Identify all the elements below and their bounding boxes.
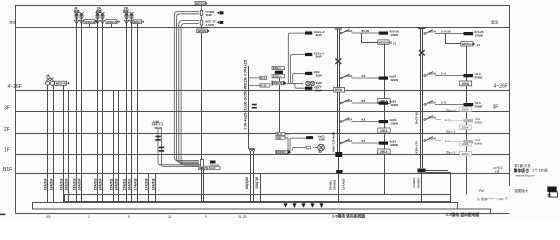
svg-text:17A(6)8: 17A(6)8 [144, 178, 148, 190]
4F cable tag box T0 [55, 81, 69, 85]
floor line 2F [16, 133, 510, 135]
wire elbow bundle w1 [174, 11, 199, 160]
busbar U2 top cap [418, 28, 425, 30]
support triangle 1 [283, 203, 287, 207]
fuse block blob [210, 161, 216, 164]
end blob b [217, 21, 220, 24]
svg-text:15A(6)4: 15A(6)4 [43, 178, 47, 190]
svg-text:15A(6)3: 15A(6)3 [59, 178, 63, 190]
svg-text:20kW: 20kW [390, 143, 398, 147]
svg-text:15A(6)2: 15A(6)2 [109, 178, 113, 190]
floor line 3F [16, 111, 510, 113]
arrester A1a [74, 12, 78, 24]
feeder F2 elbow [446, 34, 467, 195]
svg-text:5: 5 [128, 215, 130, 218]
svg-text:9: 9 [205, 215, 207, 218]
svg-text:2~4: 2~4 [441, 72, 446, 76]
riser pair P1 from 4F cluster [48, 85, 54, 202]
wire trunk row1 [288, 33, 305, 83]
busbar U1 end cap B1F [336, 170, 342, 173]
svg-text:~100A: ~100A [427, 29, 437, 33]
feeder F2 200A box faded b [460, 125, 472, 130]
svg-text:16A(6)1: 16A(6)1 [127, 178, 131, 190]
black box XLEx+1 [305, 53, 312, 56]
svg-text:www.zhulong.com: www.zhulong.com [515, 175, 534, 178]
cluster E3D box lower [272, 75, 285, 78]
svg-text:具φ∞ 5-: 具φ∞ 5- [446, 108, 456, 113]
tag box stems [90, 24, 138, 28]
feeder F2 200A box faded c [460, 142, 472, 147]
svg-text:D-15: D-15 [261, 84, 268, 88]
svg-text:K2: K2 [362, 118, 366, 122]
frame bottom line [16, 213, 510, 215]
svg-text:从 改进(一) 一 ( 1/2): 从 改进(一) 一 ( 1/2) [477, 196, 504, 201]
svg-text:30kW: 30kW [475, 75, 483, 79]
svg-text:200A: 200A [462, 152, 469, 156]
svg-text:13kW: 13kW [390, 121, 398, 125]
svg-text:200A: 200A [462, 126, 469, 130]
svg-text:4~26F: 4~26F [494, 83, 508, 89]
wire from tag T4 down [200, 5, 202, 29]
fuse risers down [202, 167, 204, 202]
svg-text:42kW: 42kW [390, 103, 398, 107]
feeder F2 200A box dark [460, 81, 472, 86]
riser pair P5a [114, 91, 119, 203]
svg-text:16A(6)4: 16A(6)4 [64, 178, 68, 190]
svg-text:30kW: 30kW [475, 104, 483, 108]
svg-text:3kW: 3kW [316, 89, 322, 93]
isolator ticks t2 [159, 147, 164, 149]
cluster E3D box upper [272, 66, 285, 69]
cluster E3D black box [275, 71, 283, 74]
support triangle 4 [310, 203, 314, 207]
svg-text:21 25: 21 25 [238, 215, 247, 218]
svg-text:WDZN: WDZN [273, 81, 282, 85]
svg-text:16A(6)4: 16A(6)4 [77, 178, 81, 190]
support triangle 5 [319, 203, 323, 207]
wire trunk row3 [293, 74, 305, 84]
svg-text:具φ∞ 5-: 具φ∞ 5- [446, 150, 456, 155]
wire B join [285, 134, 290, 151]
logo black block [547, 187, 556, 192]
feeder F2 tag box WDZN [461, 42, 480, 48]
svg-text:λλ: λλ [319, 150, 323, 154]
cable tag box T2 [106, 20, 120, 24]
svg-text:1: 1 [88, 215, 90, 218]
feed arrow box A [272, 81, 286, 86]
svg-text:200A: 200A [380, 129, 388, 133]
feeder F1 vertical [362, 33, 385, 195]
svg-text:7AAK3: 7AAK3 [412, 178, 416, 188]
cable tag box T3 [133, 20, 144, 24]
svg-text:40kW: 40kW [390, 33, 398, 37]
svg-text:11: 11 [168, 215, 172, 218]
svg-text:B1F: B1F [3, 167, 12, 173]
svg-text:繁体版也: 繁体版也 [513, 168, 529, 173]
cable tag box T5 [197, 29, 210, 33]
box D-1 [248, 76, 266, 80]
wire elbow bundle w4 [181, 24, 199, 166]
motor circles row4 [306, 81, 310, 85]
svg-text:5kW: 5kW [206, 13, 212, 17]
support triangle 3 [301, 203, 305, 207]
black box XLE [305, 72, 312, 75]
feeder F1 200A box b [378, 128, 390, 133]
svg-text:KBA-YJV-4x50: KBA-YJV-4x50 [332, 132, 336, 152]
terminal caps mid pair [249, 148, 255, 150]
svg-text:茶T被L打多: 茶T被L打多 [514, 163, 530, 168]
bus duct B outline [33, 203, 458, 210]
svg-text:~100A: ~100A [427, 100, 437, 104]
svg-text:4~26F: 4~26F [8, 84, 22, 90]
wire tag T5 down to fuse block [201, 33, 203, 160]
svg-text:1F: 1F [4, 148, 10, 154]
wire trunk row2 [291, 55, 306, 83]
svg-text:65-26: 65-26 [362, 29, 370, 33]
svg-text:20kW: 20kW [475, 33, 483, 37]
arrester A3a [124, 12, 128, 24]
svg-text:3kW: 3kW [316, 33, 322, 37]
svg-text:2~2: 2~2 [445, 118, 450, 122]
svg-text:2个 180原: 2个 180原 [533, 167, 549, 172]
svg-text:KBA-YJV: KBA-YJV [415, 141, 419, 154]
svg-text:2-5强电-竖向配电图: 2-5强电-竖向配电图 [446, 212, 480, 217]
riser pair P2 from arrester group 1 [77, 24, 82, 202]
branch U1 row1 [340, 29, 399, 37]
wire U2 down [421, 173, 423, 203]
wire row4 [287, 83, 303, 85]
cable tag box T4 top [195, 1, 208, 5]
bus duct A outline [65, 195, 451, 202]
svg-text:K3: K3 [362, 99, 366, 103]
floor line B1F [16, 173, 510, 175]
svg-text:15A(6)1: 15A(6)1 [122, 178, 126, 190]
black box 4xE1 [306, 136, 313, 139]
support triangle 2 [292, 203, 296, 207]
wire U2 right to duct [426, 171, 451, 195]
fuse block tag text [199, 166, 221, 170]
riser pair P4 from arrester group 3 [127, 24, 132, 202]
svg-text:15A(6)3: 15A(6)3 [72, 178, 76, 190]
svg-text:下载: 下载 [494, 170, 500, 174]
cluster B trunk wires [285, 134, 306, 151]
svg-text:~100A: ~100A [344, 117, 354, 121]
node wire x248 [248, 66, 250, 149]
svg-text:42kW: 42kW [390, 78, 398, 82]
busbar U1 terminal blob [335, 152, 342, 157]
branch U2 row5 half faded [424, 136, 482, 145]
svg-text:→11: →11 [390, 41, 397, 45]
left cluster B boxes [276, 132, 285, 140]
svg-text:~140A: ~140A [344, 139, 354, 143]
cable tag box T1 [84, 20, 98, 24]
black box XL1 [305, 87, 312, 90]
svg-text:8AAB3: 8AAB3 [417, 178, 421, 188]
breaker CB-b [200, 20, 203, 25]
branch U1 row4 K2 [340, 117, 398, 125]
svg-text:2~5-26: 2~5-26 [441, 30, 451, 34]
busbar U1 vertical pair [338, 29, 340, 155]
busbar U1 200A box at 4F [334, 88, 345, 93]
svg-text:200A: 200A [335, 88, 343, 92]
generator wire ga [158, 129, 200, 165]
branch U1 row3 K3 [340, 99, 398, 107]
svg-text:30kW: 30kW [475, 120, 483, 124]
svg-text:2~1: 2~1 [445, 139, 450, 143]
riser line mid extra [260, 174, 262, 203]
svg-text:17A(4)8: 17A(4)8 [133, 178, 137, 190]
svg-text:K1: K1 [362, 139, 366, 143]
svg-text:WDZ▪N: WDZ▪N [56, 82, 66, 86]
svg-text:~105A: ~105A [427, 115, 437, 119]
svg-text:200A: 200A [462, 108, 469, 112]
branch U2 row3 [424, 100, 483, 108]
svg-text:1W▪: 1W▪ [277, 136, 282, 140]
busbar U1 lower wire [338, 157, 340, 170]
wire B row2 [292, 148, 306, 152]
arrester A3b [129, 12, 133, 24]
wire B row1 [290, 138, 306, 151]
svg-text:E3D▪1: E3D▪1 [273, 66, 281, 70]
svg-text:K4: K4 [362, 74, 366, 78]
4F cluster circle a [46, 81, 50, 85]
svg-text:3F: 3F [493, 105, 499, 111]
riser pair P3 from arrester group 2 [98, 24, 103, 202]
svg-text:3F: 3F [4, 106, 10, 112]
svg-text:Pal: Pal [479, 189, 484, 193]
floor line 4~26F [16, 90, 510, 92]
svg-text:D-1: D-1 [261, 76, 266, 80]
svg-text:2F: 2F [4, 127, 10, 133]
svg-text:2~3: 2~3 [441, 101, 446, 105]
wire elbow bundle w2 [177, 14, 199, 162]
svg-text:1kW: 1kW [319, 137, 325, 141]
svg-text:→11: →11 [474, 43, 481, 47]
svg-text:15A(6)3: 15A(6)3 [93, 178, 97, 190]
feeder F1 200A box c [378, 149, 390, 154]
svg-text:2.5kW: 2.5kW [206, 23, 215, 27]
svg-text:200A: 200A [462, 82, 470, 86]
busbar U1 top cap [335, 28, 342, 30]
small box W5 [306, 146, 310, 149]
isolator ticks t1 [155, 136, 160, 138]
svg-text:3kW: 3kW [316, 55, 322, 59]
breaker CB-a [200, 10, 203, 15]
branch U2 row2 [424, 71, 483, 79]
4F cluster arrester ticks [47, 78, 54, 81]
wire elbow bundle w3 [179, 21, 199, 164]
floor line 1F [16, 154, 510, 156]
svg-text:~140A: ~140A [344, 29, 354, 33]
svg-text:16A(6)4: 16A(6)4 [49, 178, 53, 190]
svg-text:~100A: ~100A [427, 71, 437, 75]
fuse block 1F [200, 160, 203, 168]
svg-text:15A(7)8: 15A(7)8 [255, 177, 259, 189]
feed arrow box B [276, 150, 290, 154]
motor circle X big [318, 144, 325, 151]
branch U1 row5 K1 [340, 139, 398, 147]
logo outlined box [550, 192, 558, 197]
box D-2 [248, 84, 269, 88]
feeder F2 200A box faded a [460, 107, 472, 112]
svg-text:WDZ▪: WDZ▪ [134, 20, 141, 24]
arrester A1b [79, 12, 83, 24]
riser pair P5 [137, 28, 139, 203]
wire from cluster down [279, 78, 281, 134]
svg-text:ク: ク [505, 196, 508, 201]
svg-text:屋顶: 屋顶 [10, 19, 16, 24]
svg-text:~105A: ~105A [427, 136, 437, 140]
feeder F1 tag box WDZN-26 [378, 40, 397, 46]
arrester A2b [100, 12, 104, 24]
svg-text:16A(6)4: 16A(6)4 [98, 178, 102, 190]
busbar U2 end cap B1F [418, 169, 426, 173]
svg-text:30kW: 30kW [475, 141, 483, 145]
svg-text:WDZN: WDZN [277, 150, 285, 154]
riser stub S1 from box T0 [64, 85, 69, 202]
svg-text:具φ∞ 5-: 具φ∞ 5- [446, 129, 456, 134]
svg-text:8A(3)80: 8A(3)80 [245, 177, 249, 189]
svg-text:1-5强电 竖向系统图: 1-5强电 竖向系统图 [332, 214, 365, 219]
left cluster A trunk wires [287, 33, 305, 88]
duct extension right [458, 209, 491, 214]
end blob a [217, 11, 220, 14]
svg-text:3AAM3: 3AAM3 [333, 179, 337, 190]
generator wire gb [162, 129, 201, 167]
svg-text:E3D▪2: E3D▪2 [273, 74, 281, 78]
isolator ticks mid [252, 104, 257, 106]
wire U1 to bus duct [338, 173, 340, 202]
svg-text:~105A: ~105A [344, 74, 354, 78]
branch U1 row2 K4 [340, 74, 398, 82]
feeder F1 200A box a [378, 99, 390, 104]
busbar U1 joint X [335, 59, 341, 65]
branch U2 row1 [424, 29, 484, 37]
wire trunk row5 [295, 83, 305, 88]
riser short r1 [149, 174, 156, 203]
black box XLEx+2 [305, 31, 312, 34]
4F cluster circle b [50, 81, 54, 85]
svg-text:YJV-4x25+1x16-SC50-WDZN-YJV4x2: YJV-4x25+1x16-SC50-WDZN-YJV4x25 [244, 60, 248, 130]
svg-text:4Φ: 4Φ [46, 215, 51, 218]
svg-text:~105A: ~105A [344, 99, 354, 103]
svg-text:3kW: 3kW [316, 73, 322, 77]
feeder F2 200A box faded d [460, 152, 472, 157]
busbar U2 joint X [419, 50, 425, 56]
svg-text:VIP专享: VIP专享 [493, 166, 503, 170]
svg-text:蓝图版大: 蓝图版大 [515, 188, 529, 193]
svg-text:屋顶: 屋顶 [491, 20, 498, 25]
roof floor line [16, 27, 510, 29]
branch U2 row4 half faded [424, 115, 482, 124]
arrester A2a [95, 12, 99, 24]
svg-text:D=CF-16: D=CF-16 [415, 112, 419, 124]
svg-text:16A(6)8: 16A(6)8 [151, 178, 155, 190]
riser pair mid from caps [251, 151, 254, 202]
frame border [16, 6, 510, 214]
svg-text:10AAB3: 10AAB3 [342, 178, 346, 190]
svg-text:200A: 200A [380, 150, 388, 154]
busbar U2 vertical pair [421, 29, 423, 169]
svg-text:16A(6)2: 16A(6)2 [114, 178, 118, 190]
